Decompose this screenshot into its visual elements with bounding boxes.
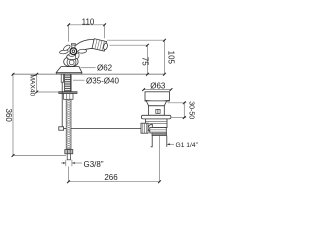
faucet body [64, 57, 78, 67]
mounting nut [64, 94, 74, 100]
threaded shank [65, 74, 72, 91]
svg-text:110: 110 [82, 17, 95, 26]
dimension 266 [69, 136, 160, 182]
svg-text:266: 266 [104, 173, 118, 182]
pop-up rod tube [61, 74, 63, 82]
valve left boss [148, 124, 152, 132]
dimension 063 [144, 89, 171, 91]
hose end nut G3/8 [65, 150, 73, 154]
aerator [92, 39, 108, 52]
valve bottom thread band [152, 133, 167, 136]
svg-text:360: 360 [4, 109, 13, 123]
mounting washer [59, 92, 77, 94]
svg-text:G3/8”: G3/8” [84, 160, 104, 169]
faucet cross handle [59, 43, 86, 59]
pop-up waste neck [146, 101, 166, 106]
svg-text:Ø62: Ø62 [97, 63, 113, 72]
valve lower body [150, 128, 167, 133]
faucet bonnet [67, 53, 77, 59]
dimension 105 [164, 40, 166, 74]
leader 062 [81, 67, 96, 69]
svg-text:75: 75 [141, 57, 150, 66]
svg-text:MAX40: MAX40 [28, 74, 35, 96]
extension lines right of spout [107, 40, 165, 45]
faucet base [56, 67, 82, 73]
svg-text:105: 105 [167, 51, 176, 65]
rod clevis [59, 127, 64, 130]
dimension 75 [146, 45, 148, 74]
dimension 30-50 [168, 103, 187, 118]
dimension 110 [69, 25, 105, 42]
tailpipe [151, 136, 153, 147]
svg-text:Ø35-Ø40: Ø35-Ø40 [86, 76, 119, 85]
pop-up waste cap [145, 92, 170, 101]
pop-up waste hex body [145, 119, 167, 128]
spout [76, 39, 96, 52]
pop-up waste flange [141, 115, 171, 119]
pop-up waste lower cylinder [149, 106, 165, 116]
G3/8 dimension arrows [61, 160, 82, 166]
deck line [12, 73, 165, 75]
svg-text:Ø63: Ø63 [150, 82, 166, 91]
dimension MAX40 [36, 74, 38, 92]
rod knurled nut [141, 123, 148, 133]
pop-up horizontal rod [64, 128, 67, 130]
dimension 360 [12, 74, 14, 155]
leader G1 1/4 [167, 143, 174, 145]
svg-text:30-50: 30-50 [187, 101, 194, 119]
leader 035-040 [73, 79, 85, 81]
svg-text:G1 1/4”: G1 1/4” [176, 142, 198, 149]
pop-up vertical rod [61, 82, 63, 127]
hose spigot stub [67, 154, 70, 160]
braided hose [66, 99, 71, 149]
